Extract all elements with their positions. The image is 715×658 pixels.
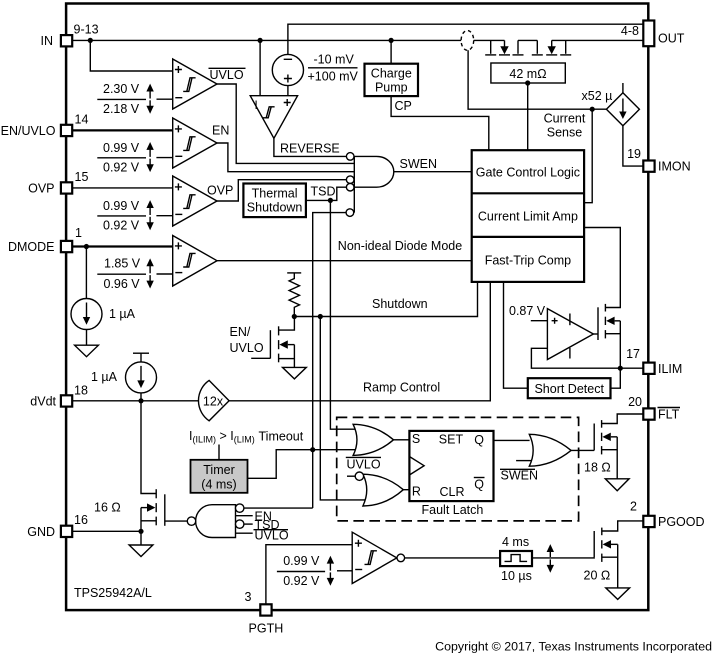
pin IMON (19) [643,161,654,172]
wire ILIM junction down to short detect [611,368,621,388]
svg-text:UVLO: UVLO [347,457,381,471]
wire timeout net to bubble [313,213,346,508]
wire OVP pin to OVP comparator [72,187,173,189]
net label UVLO stub (overlined) [236,532,253,534]
node timeout junction [310,447,315,452]
pin EN/UVLO (14) [61,125,72,136]
svg-text:Shutdown: Shutdown [372,297,428,311]
wire R OR output to latch [403,489,409,491]
svg-text:UVLO: UVLO [210,68,244,82]
svg-text:Ramp Control: Ramp Control [363,380,440,394]
svg-text:GND: GND [27,525,55,539]
svg-text:Q: Q [474,433,484,447]
wire EN - input stub [156,157,172,159]
wire IN down to reverse comparator I input [259,40,261,95]
svg-text:Fast-Trip Comp: Fast-Trip Comp [485,254,571,268]
voltage source -10mV/+100mV offset [272,54,303,85]
svg-text:OUT: OUT [658,32,685,46]
svg-text:0.92 V: 0.92 V [103,161,140,175]
svg-text:R: R [412,485,421,499]
node shutdown net junction at resistor [292,314,297,319]
dashed ellipse on IN rail [461,31,474,51]
svg-text:EN/: EN/ [230,325,251,339]
wire 0.87V reference stub to + input [531,320,548,322]
svg-text:0.92 V: 0.92 V [103,219,140,233]
node dVdt junction [138,398,143,403]
node GND junction [138,529,143,534]
node IN junction to reverse comparator [258,38,263,43]
wire shutdown net to fast-trip comp [294,282,477,317]
node IN junction to charge pump [389,38,394,43]
svg-text:1: 1 [75,226,82,240]
transistor ILIM clamp FET [598,304,620,368]
wire gate bottom stub to timeout bubble [353,187,355,212]
wire NAND bubble input to timeout vertical [244,507,313,509]
SR fault latch block [409,431,493,501]
wire TSD to SWEN gate bubble [306,187,347,200]
ground below DMODE current source [86,330,88,346]
svg-text:18: 18 [74,384,88,398]
wire EN comparator output to SWEN gate [217,143,354,172]
svg-text:S: S [412,432,420,446]
transistor FLT pulldown FET [594,414,643,479]
wire diamond supply stub [622,83,624,93]
wire PGTH pin riser to PGTH comparator [266,545,352,605]
ground below PGOOD FET [606,588,630,600]
svg-text:EN/UVLO: EN/UVLO [1,124,56,138]
svg-text:Sense: Sense [547,125,582,139]
node shutdown branch junction [318,314,323,319]
gate OR into latch S [353,424,393,455]
wire OVP comparator output to SWEN gate bubble [217,180,346,201]
svg-text:10 µs: 10 µs [501,569,532,583]
wire comparator output to FET gate [593,333,598,335]
net label SWEN-bar stub [516,460,531,462]
pin OUT (4-8) [643,21,654,47]
svg-text:SWEN: SWEN [400,157,438,171]
svg-text:2.30 V: 2.30 V [103,82,140,96]
wire S OR output to latch [394,439,410,441]
svg-text:+100 mV: +100 mV [308,70,359,84]
wire fast-trip comp down to short detect [504,282,528,388]
op-amp REVERSE comparator (points down) [250,96,297,139]
svg-text:0.87 V: 0.87 V [509,304,546,318]
svg-text:dVdt: dVdt [30,394,56,408]
svg-text:4-8: 4-8 [621,24,639,38]
svg-text:2.18 V: 2.18 V [103,102,140,116]
svg-text:Timeout: Timeout [259,430,304,444]
wire deglitch output to PGOOD FET gate [532,557,594,559]
svg-text:FLT: FLT [658,408,680,422]
wire DMODE - input stub [157,273,173,275]
gate 3-input NAND (mirrored) [196,505,236,538]
wire EN/UVLO pin to EN comparator [72,129,172,131]
wire PGTH output to deglitch box [405,557,501,559]
wire ellipse to internal FETs [474,39,505,41]
svg-text:0.99 V: 0.99 V [103,199,140,213]
wire UVLO - input stub [157,98,173,100]
svg-text:CLR: CLR [440,485,465,499]
bubble NAND input from timeout net [236,504,244,512]
ground below EN/UVLO FET [283,367,307,379]
wire DMODE pin to DMODE comparator [72,245,172,247]
charge pump block [365,64,419,96]
svg-text:PGTH: PGTH [249,622,284,636]
svg-text:9-13: 9-13 [74,23,99,37]
svg-text:0.99 V: 0.99 V [103,141,140,155]
fault latch dashed boundary [337,417,579,521]
svg-text:TPS25942A/L: TPS25942A/L [74,586,152,600]
svg-text:I: I [255,100,258,112]
svg-text:OVP: OVP [28,181,54,195]
wire comparison stub into timer [218,445,220,460]
pin DMODE (1) [61,241,72,252]
wire DMODE comparator output to fast-trip comp [217,260,472,262]
latch clock-style UVLO marker triangle [409,457,424,476]
transistor EN/UVLO discharge FET [251,317,294,368]
timer block 4ms [191,460,248,493]
wire charge pump output to gate control logic [391,96,489,150]
svg-text:Charge: Charge [371,67,412,81]
svg-text:-10 mV: -10 mV [314,53,355,67]
wire UVLO stub into R gate bubble [347,475,355,477]
op-amp PGTH power-good comparator [352,532,397,583]
svg-text:42 mΩ: 42 mΩ [509,67,546,81]
wire shutdown branch down to fault latch R gate [320,317,366,500]
amplifier 12x dVdt ramp amp [198,380,229,420]
node current sense junction [590,107,595,112]
svg-text:12x: 12x [203,395,224,409]
gate OR driving FLT FET [529,434,571,466]
wire OUT-side top rail from offset source to OUT [288,24,643,54]
svg-text:0.96 V: 0.96 V [104,277,141,291]
svg-text:20: 20 [628,395,642,409]
op-amp OVP comparator [173,176,217,226]
wire timer output to timeout net [248,450,358,479]
short detect block [528,378,611,398]
wire IN down to UVLO comparator + input [90,40,172,71]
svg-text:3: 3 [245,590,252,604]
svg-text:Thermal: Thermal [252,187,298,201]
wire latch Q to SWEN OR gate [494,439,530,441]
svg-text:PGOOD: PGOOD [658,515,705,529]
wire UVLO comparator output to SWEN gate [217,84,354,163]
svg-text:OVP: OVP [207,183,233,197]
wire IN down to charge pump [390,40,392,63]
wire OR output to FLT FET gate [571,449,594,451]
node IN-branch junction to UVLO comparator [88,38,93,43]
transistor 16 ohm pulldown FET (gate right) [141,489,165,531]
svg-text:Fault Latch: Fault Latch [422,503,484,517]
svg-text:17: 17 [626,347,640,361]
op-amp EN comparator [173,118,217,168]
svg-text:15: 15 [75,170,89,184]
deglitch block 4ms/10us [500,551,532,566]
pin GND (16) [61,526,72,537]
svg-text:IN: IN [41,34,54,48]
wire IN rail to power FETs [72,39,461,41]
bubble OVP input [346,176,354,184]
svg-text:20 Ω: 20 Ω [584,568,611,582]
wire dVdt junction down to 16 ohm FET drain [141,401,156,494]
pin ILIM (17) [643,363,654,374]
wire NAND output to 16 ohm FET gate [165,520,188,522]
resistor 42 mOhm sense resistor box [491,63,565,83]
svg-text:UVLO: UVLO [230,341,264,355]
gate OR into latch R [363,474,403,506]
svg-text:Short Detect: Short Detect [534,382,604,396]
svg-text:14: 14 [75,113,89,127]
wire TSD junction down to fault latch S gate [330,200,357,429]
svg-text:1 µA: 1 µA [91,370,118,384]
gate SWEN AND gate [354,156,394,187]
svg-text:TSD: TSD [311,184,336,198]
svg-text:EN: EN [212,124,229,138]
wire SWEN gate output to gate control logic [394,171,472,173]
op-amp DMODE comparator [173,236,217,287]
net label EN stub [236,515,253,517]
svg-text:2: 2 [630,500,637,514]
pin IN (9-13) [61,35,72,46]
current source 1uA on dVdt [133,352,149,354]
svg-text:UVLO: UVLO [255,529,289,543]
wire current limit amp output to ILIM FET drain [584,228,620,308]
svg-text:(4 ms): (4 ms) [201,477,236,491]
svg-text:4 ms: 4 ms [502,535,529,549]
resistor pull-up on EN/UVLO FET drain [287,272,301,274]
bubble TSD input [346,183,354,191]
wire 42mOhm tap down to gate control logic [527,83,529,150]
bubble PGTH comparator inverted output [397,554,405,562]
svg-text:0.99 V: 0.99 V [283,554,320,568]
svg-text:Shutdown: Shutdown [247,201,303,215]
wire OVP - input stub [156,215,172,217]
bubble NAND input TSD [236,520,244,528]
transistor internal power FET chain [485,40,571,55]
bubble timeout input [346,209,354,217]
wire offset source to reverse comparator + input [287,86,289,96]
svg-text:Current: Current [544,111,586,125]
transistor PGOOD pulldown FET [594,521,643,588]
svg-text:1 µA: 1 µA [109,307,136,321]
wire dVdt pin rail to 12x amp [72,400,199,402]
svg-text:Gate Control Logic: Gate Control Logic [476,165,580,179]
svg-text:ILIM: ILIM [658,362,682,376]
pin OVP (15) [61,182,72,193]
pin FLT (20) [643,408,654,419]
node DMODE junction [84,244,89,249]
wire ellipse sense tap down and across to current sense [468,50,606,109]
pin PGTH (3) [260,604,271,615]
svg-text:19: 19 [627,147,641,161]
op-amp UVLO comparator [173,59,217,109]
svg-text:Current Limit Amp: Current Limit Amp [478,209,578,223]
current source 1uA on DMODE [85,247,87,299]
svg-text:1.85 V: 1.85 V [104,256,141,270]
svg-text:CP: CP [395,99,412,113]
ground symbol at GND [140,531,142,545]
node ILIM junction [618,366,623,371]
svg-text:18 Ω: 18 Ω [584,461,611,475]
svg-text:SWEN: SWEN [501,469,539,483]
thermal shutdown block [243,184,306,218]
pin PGOOD (2) [643,516,654,527]
pin dVdt (18) [61,395,72,406]
wire PGTH - input stub [337,570,352,572]
ground below FLT FET [605,479,629,491]
svg-text:Pump: Pump [375,81,408,95]
svg-text:IMON: IMON [658,160,691,174]
bubble REVERSE input [346,153,354,161]
wire diamond to IMON pin [623,126,643,166]
node TSD junction [328,198,333,203]
up/down delay arrows [549,551,551,557]
bubble NAND output [187,517,195,525]
svg-text:Copyright © 2017, Texas Instru: Copyright © 2017, Texas Instruments Inco… [435,640,712,654]
gate control logic / current limit amp / fast-trip comp block [472,150,584,282]
svg-text:16 Ω: 16 Ω [94,500,121,514]
op-amp 0.87V current limit comparator [547,309,593,360]
wire ramp control 12x output to fast-trip comp [229,282,490,401]
svg-text:DMODE: DMODE [8,240,55,254]
svg-text:x52 µ: x52 µ [582,89,613,103]
node 42mOhm tap junction [525,80,530,85]
svg-text:Non-ideal Diode Mode: Non-ideal Diode Mode [338,239,462,253]
wire sense junction down into gate control block right side [584,109,592,203]
svg-text:REVERSE: REVERSE [280,142,340,156]
svg-text:Q: Q [474,477,484,491]
svg-text:SET: SET [439,433,464,447]
svg-text:Timer: Timer [203,463,234,477]
wire REVERSE comparator output to SWEN gate bubble [274,138,347,156]
wire GND pin rail [72,530,141,532]
svg-text:0.92 V: 0.92 V [283,574,320,588]
wire comparator - input feedback loop to ILIM net [531,348,643,368]
outer border of TPS25942A/L block [66,4,648,611]
bubble R OR gate upper input [355,472,363,480]
svg-text:16: 16 [74,513,88,527]
